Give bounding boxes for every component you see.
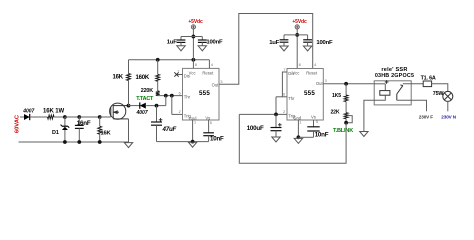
svg-text:Dis: Dis	[288, 71, 294, 76]
diode 1N4007 (feedback)	[140, 102, 146, 108]
junction T.BLINK node	[344, 121, 348, 125]
junction drain node	[127, 104, 131, 108]
wire R to node A	[54, 116, 65, 118]
svg-text:160K: 160K	[136, 75, 150, 81]
wire Vs#1 stub down	[208, 120, 210, 133]
lamp 75W	[443, 91, 453, 101]
op-amp U1 555 timer box	[183, 68, 220, 120]
wire 100nF(2) gnd lead	[307, 42, 309, 46]
svg-text:10nF: 10nF	[210, 136, 224, 143]
svg-text:220K: 220K	[141, 88, 153, 94]
svg-text:4007: 4007	[136, 110, 148, 116]
ground (100uF)	[272, 137, 280, 142]
wire lamp to mains N	[447, 101, 449, 111]
wire 100nF(1) gnd lead	[201, 42, 203, 45]
relay K1 SSR box	[374, 81, 411, 105]
wire D1 top lead	[64, 117, 66, 126]
wire U2 Dis to Thr	[282, 72, 287, 97]
plus sign relay coil	[385, 80, 389, 84]
svg-text:5: 5	[210, 121, 212, 125]
junction 16nF top	[77, 115, 81, 119]
wire 2K bottom lead	[345, 119, 347, 123]
wire Gnd#2 stub	[297, 120, 299, 137]
relay coil	[380, 91, 390, 96]
junction rail D1	[63, 140, 67, 144]
ground (MOSFET source)	[124, 143, 132, 148]
resistor 160K	[156, 74, 160, 81]
wire 220K bottom to Thr	[158, 95, 183, 97]
svg-text:Thr: Thr	[184, 95, 191, 100]
junction node A top (D1)	[63, 115, 67, 119]
junction ground U1	[191, 140, 195, 144]
junction 16K top / gate node	[98, 115, 102, 119]
svg-text:1: 1	[194, 121, 196, 125]
wire 100nF(2) lead	[307, 35, 309, 40]
svg-text:1uF: 1uF	[269, 40, 279, 46]
resistor 1K5	[344, 95, 348, 102]
wire T.BLINK to Trig U2 loop	[239, 114, 346, 163]
wire 2K wiper bracket	[346, 116, 352, 123]
ground (1uF 2)	[280, 46, 288, 51]
wire 1uF(2) gnd lead	[283, 42, 285, 46]
svg-text:16K 1W: 16K 1W	[43, 109, 65, 115]
svg-text:3: 3	[325, 79, 327, 83]
junction Out U2 / divider	[344, 82, 348, 86]
capacitor 100nF (1)	[198, 40, 207, 42]
svg-text:6: 6	[283, 93, 285, 97]
svg-text:16nF: 16nF	[77, 120, 91, 127]
wire Reset#1 stub	[208, 60, 210, 69]
svg-text:3: 3	[220, 80, 222, 84]
wire bottom rail	[19, 141, 129, 143]
svg-text:8: 8	[299, 63, 301, 67]
junction Vcc node	[192, 58, 196, 62]
svg-text:60VAC: 60VAC	[15, 114, 21, 133]
wire Out U1 to Reset U2 loop	[219, 14, 313, 85]
svg-text:5: 5	[316, 120, 318, 124]
resistor 16K (gate)	[98, 126, 102, 134]
svg-text:1uF: 1uF	[167, 40, 177, 46]
transistor Q1 (N-MOSFET)	[110, 103, 129, 119]
wire Vcc rail section1	[129, 59, 210, 61]
junction power caps 2	[295, 33, 299, 37]
svg-text:16K: 16K	[101, 131, 112, 137]
svg-text:D1: D1	[52, 130, 59, 136]
diode D_in 1N4007	[24, 114, 30, 120]
wire 16K top lead	[99, 117, 101, 126]
junction Thr branch 1	[164, 94, 168, 98]
svg-text:100nF: 100nF	[316, 40, 333, 46]
wire 16K pull-up body gap	[128, 81, 130, 106]
svg-text:555: 555	[304, 90, 315, 97]
resistor 16K (drain pull-up)	[127, 74, 131, 81]
svg-text:Reset: Reset	[306, 70, 318, 75]
svg-text:7: 7	[283, 68, 285, 72]
wire caps rail 2	[284, 34, 308, 36]
wire power 2 down	[296, 29, 298, 69]
wire source down	[128, 119, 130, 142]
wire 16nF to 16K	[79, 116, 99, 118]
svg-text:75W: 75W	[433, 91, 445, 97]
op-amp U2 555 timer box	[287, 69, 323, 121]
wire Out U2	[323, 83, 374, 85]
wire fuse to lamp	[432, 84, 448, 92]
wire diode to cap node	[146, 105, 166, 107]
resistor 220K	[156, 91, 160, 96]
svg-text:Reset: Reset	[202, 70, 214, 75]
wire Gnd#1 stub down	[192, 120, 194, 142]
capacitor 47uF electrolytic	[151, 122, 162, 125]
ground (100nF 2)	[303, 46, 311, 51]
junction ground U2	[297, 135, 301, 139]
svg-text:555: 555	[199, 90, 210, 97]
svg-text:Out: Out	[316, 81, 324, 86]
capacitor 10nF (2)	[307, 127, 319, 131]
wire power 1 down	[192, 29, 194, 60]
wire 160K top lead	[157, 60, 159, 75]
wire 10nF(2) to gnd node	[298, 136, 313, 138]
wire Vcc#1 stub	[192, 60, 194, 69]
wire 16K bottom lead	[99, 134, 101, 142]
wire 47uF top lead	[156, 106, 158, 122]
wire switch top terminal to fuse	[403, 83, 423, 85]
capacitor 16nF	[75, 125, 84, 128]
svg-text:T1. 6A: T1. 6A	[421, 75, 436, 81]
svg-text:2: 2	[283, 110, 285, 114]
wire 100uF top lead	[275, 114, 277, 127]
capacitor 10nF (1)	[203, 133, 214, 136]
svg-text:100uF: 100uF	[247, 125, 264, 132]
no-connect X on U1 Dis	[174, 72, 178, 76]
wire drain node up	[128, 60, 130, 74]
fuse T1.6A	[423, 81, 431, 87]
svg-text:03HB 2GPOC5: 03HB 2GPOC5	[375, 73, 414, 79]
junction rail 16nF	[77, 140, 81, 144]
svg-text:+5Vdc: +5Vdc	[292, 19, 307, 25]
junction power caps 1	[192, 35, 196, 39]
wire 1uF(1) gnd lead	[180, 42, 182, 45]
wire U2 Thr	[276, 96, 287, 98]
zener diode D1	[61, 125, 70, 130]
ground (U2)	[294, 138, 302, 143]
svg-text:16K: 16K	[113, 74, 124, 80]
svg-text:T.TACT: T.TACT	[136, 96, 154, 102]
wire 16nF top lead	[78, 117, 80, 125]
ground (relay coil)	[360, 132, 368, 137]
svg-text:8: 8	[195, 63, 197, 67]
wire 10nF(2) bottom lead	[313, 131, 315, 137]
svg-text:2: 2	[179, 110, 181, 114]
wire between 1K5 and 2K	[345, 102, 347, 113]
wire 1uF(2) lead	[283, 35, 285, 40]
wire 100uF bottom lead	[275, 131, 277, 137]
potentiometer 2K	[344, 113, 348, 119]
wire U2 Trig	[239, 113, 287, 115]
svg-text:T.BLINK: T.BLINK	[333, 128, 353, 134]
wire diode to R 16K 1W	[30, 116, 47, 118]
svg-text:Out: Out	[212, 82, 220, 87]
svg-text:Thr: Thr	[288, 96, 295, 101]
junction Trig/100uF node	[274, 113, 278, 117]
plus sign 100uF	[278, 123, 282, 127]
svg-text:4: 4	[211, 63, 213, 67]
ground (1uF 1)	[177, 46, 185, 51]
svg-text:1K5: 1K5	[332, 93, 341, 99]
wire 1uF(1) lead	[180, 37, 182, 41]
wire Dis#1 stub	[177, 74, 183, 76]
capacitor 100nF (2)	[303, 40, 312, 42]
svg-text:6: 6	[179, 91, 181, 95]
junction Thr branch 2	[170, 94, 174, 98]
ground (U1)	[188, 142, 196, 147]
svg-text:10nF: 10nF	[315, 132, 329, 139]
wire 16nF bottom lead	[78, 128, 80, 142]
wire down to Trig	[171, 96, 173, 115]
wire 100nF(1) lead	[201, 37, 203, 41]
svg-text:230V F: 230V F	[419, 114, 434, 119]
ground (100nF 1)	[198, 46, 206, 51]
wire 60VAC top lead	[20, 116, 24, 118]
junction rail 16K	[98, 140, 102, 144]
wire down to cap node	[165, 96, 167, 106]
wire Out to coil (inside box)	[374, 83, 385, 85]
wire Vs#2 stub	[313, 120, 315, 127]
wire Trig stub	[172, 113, 183, 115]
wire coil top lead	[384, 84, 386, 91]
svg-text:100nF: 100nF	[206, 40, 223, 46]
svg-text:4: 4	[314, 63, 316, 67]
junction 160K top	[156, 58, 160, 62]
svg-text:1: 1	[299, 120, 301, 124]
wire 47uF bottom lead	[156, 125, 158, 141]
wire divider top lead	[345, 84, 347, 95]
capacitor 1uF (2)	[280, 40, 289, 42]
wire 10nF(1) bottom lead	[208, 136, 210, 142]
svg-text:47uF: 47uF	[162, 126, 177, 133]
power symbol +5Vdc (2)	[295, 25, 299, 29]
wire gate	[100, 116, 111, 118]
relay switch contact	[397, 85, 403, 100]
wire node A to 16nF	[65, 116, 79, 118]
resistor 16K 1W	[48, 115, 55, 119]
wire between 160K and 220K	[157, 81, 159, 91]
power symbol +5Vdc (1)	[191, 25, 195, 29]
wire ground rail U1	[157, 141, 209, 143]
svg-text:230V N: 230V N	[441, 115, 457, 120]
svg-text:4007: 4007	[22, 108, 34, 114]
wire U2 Thr to Trig node	[275, 97, 277, 115]
junction 47uF top	[155, 104, 159, 108]
svg-text:+5Vdc: +5Vdc	[188, 19, 203, 25]
capacitor 100uF electrolytic	[271, 128, 282, 131]
svg-text:Vs: Vs	[311, 114, 316, 119]
plus sign 47uF	[159, 118, 163, 122]
capacitor 1uF (1)	[177, 40, 186, 42]
svg-text:Dis: Dis	[184, 74, 190, 79]
wire coil return to ground	[364, 95, 385, 131]
wire D1 bottom lead	[64, 130, 66, 142]
wire caps rail 1	[181, 36, 202, 38]
svg-text:Vs: Vs	[205, 115, 210, 120]
wire switch bottom terminal to mains F	[397, 100, 427, 111]
wire drain to diode	[129, 105, 140, 107]
svg-text:22K: 22K	[331, 110, 340, 116]
svg-text:7: 7	[177, 70, 179, 74]
